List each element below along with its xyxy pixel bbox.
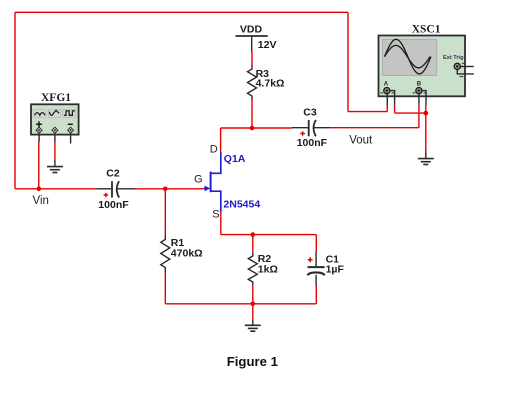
wire source node horizontal — [221, 234, 316, 236]
ground below scope — [418, 151, 434, 165]
node junction R3 bottom on drain wire — [250, 126, 255, 131]
wire R2 lower lead — [252, 286, 254, 304]
svg-text:C3: C3 — [303, 107, 317, 119]
wire source vertical — [220, 212, 222, 235]
net label Vout — [349, 134, 373, 146]
svg-text:XFG1: XFG1 — [41, 92, 71, 104]
svg-text:VDD: VDD — [240, 24, 263, 36]
power VDD — [236, 24, 277, 52]
svg-text:A: A — [384, 81, 389, 87]
resistor R2 — [248, 252, 278, 286]
wire left vertical down to Vin node — [14, 12, 16, 189]
node junction A- B- tie — [424, 111, 429, 116]
wire XFG1 plus terminal drop — [38, 142, 40, 189]
wire R3 bottom lead — [251, 100, 253, 128]
wire R1 upper lead — [164, 189, 166, 236]
caption Figure 1 — [227, 354, 278, 369]
svg-text:Vout: Vout — [349, 134, 373, 146]
pin label S — [212, 208, 219, 220]
wire Vout from C3 to scope B+ — [330, 127, 419, 129]
wire R2 upper lead — [252, 235, 254, 253]
XSC1 pin stubs — [387, 91, 426, 105]
wire drain node horizontal to C3 — [221, 127, 292, 129]
ground below XFG1 — [47, 161, 63, 173]
wire scope B+ drop to Vout — [418, 105, 420, 128]
wire scope B- vertical to ground — [425, 105, 427, 151]
svg-text:D: D — [210, 144, 218, 156]
wire scope A+ horizontal — [348, 111, 387, 113]
svg-text:G: G — [194, 173, 203, 185]
wire top horizontal from Vin node to scope A+ — [15, 11, 348, 13]
svg-text:2N5454: 2N5454 — [223, 199, 260, 211]
wire ground drop from bottom bus — [252, 304, 254, 320]
node junction R1 top on gate wire — [163, 187, 168, 192]
svg-text:100nF: 100nF — [297, 137, 328, 149]
wire scope A+ vertical riser to top wire — [347, 12, 349, 111]
wire scope A+ drop — [386, 105, 388, 112]
resistor R3 — [248, 65, 285, 100]
ground bottom bus — [245, 320, 261, 331]
svg-text:Q1A: Q1A — [224, 153, 246, 165]
capacitor C2 — [97, 168, 135, 212]
svg-text:Figure 1: Figure 1 — [227, 354, 278, 369]
wire C1 lower lead — [315, 286, 317, 304]
svg-text:C2: C2 — [106, 168, 120, 180]
oscilloscope XSC1 — [379, 24, 474, 97]
svg-text:Vin: Vin — [33, 195, 49, 207]
XFG1 pin stubs — [39, 133, 71, 143]
wire drain vertical — [220, 128, 222, 152]
node junction R2 top on source wire — [251, 232, 256, 237]
svg-text:12V: 12V — [258, 39, 277, 51]
capacitor C1 — [308, 252, 345, 286]
capacitor C3 — [292, 107, 330, 149]
wire XFG1 common terminal to ground — [54, 142, 56, 161]
wire scope A- horizontal to B- — [395, 112, 426, 114]
wire VDD to R3 — [251, 52, 253, 65]
svg-text:4.7kΩ: 4.7kΩ — [256, 78, 285, 90]
pin label D — [210, 144, 218, 156]
wire scope A- drop — [394, 105, 396, 113]
svg-text:S: S — [212, 208, 219, 220]
pin label G — [194, 173, 203, 185]
svg-text:470kΩ: 470kΩ — [171, 248, 203, 260]
svg-text:B: B — [417, 81, 422, 87]
node junction XFG1 plus on Vin wire — [37, 187, 42, 192]
wire R1 lower lead — [164, 272, 166, 304]
wire gate from C2 to Q1A — [135, 188, 204, 190]
wire bottom ground bus — [165, 303, 316, 305]
wire Vin horizontal to C2 — [15, 188, 97, 190]
svg-text:100nF: 100nF — [98, 199, 129, 211]
svg-text:1µF: 1µF — [326, 264, 345, 276]
svg-text:1kΩ: 1kΩ — [258, 263, 278, 275]
transistor Q1A JFET 2N5454 — [204, 152, 261, 212]
svg-text:Ext Trig: Ext Trig — [443, 55, 464, 61]
resistor R1 — [161, 236, 203, 272]
svg-text:XSC1: XSC1 — [412, 24, 441, 36]
node junction ground on bottom bus — [251, 302, 256, 307]
wire C1 upper lead — [315, 235, 317, 252]
net label Vin — [33, 195, 49, 207]
function generator XFG1 — [31, 92, 79, 135]
